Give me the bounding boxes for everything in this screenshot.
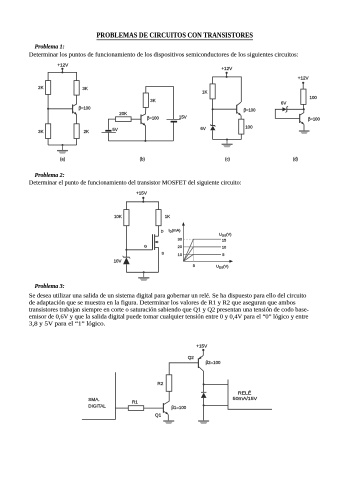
relay coil outline (problema 3) xyxy=(228,380,272,410)
wire bottom rail (problema 2) xyxy=(126,271,158,273)
transistor Q npn (circuit d) xyxy=(300,114,304,125)
wire zener anode (circuit c) xyxy=(212,130,214,139)
wire digital output to R1 (problema 3) xyxy=(115,407,128,409)
transistor Q npn (circuit c) xyxy=(237,102,241,115)
svg-text:SMA.: SMA. xyxy=(88,397,99,402)
ground (circuit a) xyxy=(57,145,68,154)
resistor 2K lower right (circuit a) xyxy=(74,124,79,139)
ground (circuit c) xyxy=(222,140,233,148)
junction emitter bottom (circuit b) xyxy=(144,140,146,142)
svg-text:10V: 10V xyxy=(114,258,122,263)
resistor 1K (circuit c) xyxy=(210,84,215,99)
wire supply stub (circuit d) xyxy=(302,83,304,89)
svg-text:β=100: β=100 xyxy=(147,116,160,121)
title: PROBLEMAS DE CIRCUITOS CON TRANSISTORES xyxy=(97,31,254,40)
wire collector (circuit d) xyxy=(300,109,304,115)
wire emitter Q1 to ground (problema 3) xyxy=(167,414,169,420)
junction bottom rail (problema 2) xyxy=(143,271,145,273)
transistor Q2 pnp (problema 3) xyxy=(198,355,203,371)
svg-text:DIGITAL: DIGITAL xyxy=(88,403,106,408)
svg-text:10K: 10K xyxy=(114,214,122,219)
resistor 20K base (circuit b) xyxy=(116,117,132,122)
graph dashed level 30 xyxy=(183,238,193,240)
wire collector (circuit a) xyxy=(73,95,77,106)
graph curve UGS=15 xyxy=(183,239,221,261)
svg-text:D: D xyxy=(161,230,164,234)
wire base (circuit a) xyxy=(48,108,73,110)
svg-text:100: 100 xyxy=(245,125,253,130)
wire bottom rail (circuit b) xyxy=(108,140,173,142)
svg-text:15: 15 xyxy=(222,237,226,242)
svg-text:RELÉ: RELÉ xyxy=(238,389,251,395)
svg-text:3,8 y 5V para el “1” lógico.: 3,8 y 5V para el “1” lógico. xyxy=(29,321,106,328)
supply terminal dot (circuit d) xyxy=(302,82,304,84)
svg-text:β=100: β=100 xyxy=(79,106,92,111)
svg-text:Q1: Q1 xyxy=(155,412,162,417)
svg-text:6V: 6V xyxy=(200,126,205,131)
svg-text:Q2: Q2 xyxy=(188,355,195,360)
junction node A (problema 3) xyxy=(203,383,205,385)
wire collector node to zener cathode (circuit d) xyxy=(287,108,304,110)
wire top rail (problema 2) xyxy=(126,202,158,210)
wire source (problema 2) xyxy=(158,247,160,272)
svg-text:(a): (a) xyxy=(60,156,66,161)
junction top rail (problema 2) xyxy=(142,201,144,203)
svg-text:R1: R1 xyxy=(132,400,138,405)
wire lower left (circuit a) xyxy=(47,139,49,146)
wire emitter (circuit a) xyxy=(76,114,78,123)
svg-text:20K: 20K xyxy=(119,111,127,116)
wire emitter resistor to rail (circuit c) xyxy=(240,134,242,139)
wire base (circuit b) xyxy=(131,118,141,120)
wire supply stub (circuit c) xyxy=(226,73,228,77)
supply terminal dot (circuit a) xyxy=(61,68,63,70)
svg-text:β=100: β=100 xyxy=(244,107,257,112)
wire collector (circuit b) xyxy=(141,107,146,116)
svg-text:Problema 3:: Problema 3: xyxy=(35,284,65,290)
svg-text:+12V: +12V xyxy=(221,66,233,71)
junction base node (circuit c) xyxy=(212,108,214,110)
wire left mid (circuit a) xyxy=(47,94,49,123)
wire drain (problema 2) xyxy=(158,226,160,237)
zener diode 10V (problema 2) xyxy=(123,256,131,264)
wire node B to ground (problema 3) xyxy=(203,405,205,420)
supply terminal dot (problema 3) xyxy=(202,349,204,351)
wire battery minus to rail (circuit b) xyxy=(107,133,109,141)
junction collector node (circuit d) xyxy=(303,108,305,110)
junction node B (problema 3) xyxy=(203,404,205,406)
svg-text:+15V: +15V xyxy=(136,191,148,196)
wire zener node (circuit c) xyxy=(212,99,214,126)
svg-text:2K: 2K xyxy=(38,85,43,90)
wire R1 to base Q1 (problema 3) xyxy=(144,407,164,409)
wire diode to node B (problema 3) xyxy=(203,398,205,406)
graph curve UGS=10 xyxy=(183,247,221,261)
wire base to battery (circuit b) xyxy=(108,119,115,130)
svg-text:3K: 3K xyxy=(82,86,87,91)
wire emitter (circuit b) xyxy=(144,125,146,140)
svg-text:5V: 5V xyxy=(112,127,117,132)
zener diode 6V feedback (circuit d) xyxy=(282,106,288,112)
supply terminal dot (circuit c) xyxy=(226,72,228,74)
resistor R2 (problema 3) xyxy=(166,375,172,392)
wire lower right (circuit a) xyxy=(76,139,78,146)
svg-text:(d): (d) xyxy=(293,157,299,162)
svg-text:+15V: +15V xyxy=(196,343,208,348)
wire top rail (circuit c) xyxy=(213,77,242,102)
svg-text:(b): (b) xyxy=(140,156,146,161)
wire emitter Q2 supply (problema 3) xyxy=(202,350,204,355)
svg-text:Problema 2:: Problema 2: xyxy=(35,173,65,179)
wire gate (problema 2) xyxy=(126,249,152,251)
resistor 3K collector (circuit b) xyxy=(143,93,148,107)
junction bottom rail (circuit a) xyxy=(62,144,64,146)
wire supply stub (circuit a) xyxy=(61,69,63,73)
wire zener anode to base (circuit d) xyxy=(275,109,299,118)
wire emitter (circuit c) xyxy=(240,115,242,119)
svg-text:5: 5 xyxy=(222,252,224,257)
svg-text:50mA/15V: 50mA/15V xyxy=(233,396,258,401)
node base divider junction (circuit a) xyxy=(47,108,49,110)
svg-text:100: 100 xyxy=(310,95,318,100)
ground Q2 relay (problema 3) xyxy=(198,421,209,424)
wire node B to relay (problema 3) xyxy=(204,404,228,406)
svg-text:de adaptación que se muestra e: de adaptación que se muestra en la figur… xyxy=(29,300,296,307)
svg-text:β=100: β=100 xyxy=(308,117,321,122)
transistor Q1 npn (problema 3) xyxy=(163,401,169,414)
svg-text:Problema 1:: Problema 1: xyxy=(35,45,65,51)
wire node A to relay (problema 3) xyxy=(204,383,228,385)
wire emitter (circuit d) xyxy=(303,124,305,130)
resistor 1K drain (problema 2) xyxy=(156,210,161,226)
graph x-axis UDS (problema 2) xyxy=(183,260,233,263)
resistor 2K upper left (circuit a) xyxy=(46,81,51,95)
mosfet M1 (problema 2) xyxy=(153,234,159,250)
wire R2 to base Q2 (problema 3) xyxy=(169,363,198,375)
wire base (circuit c) xyxy=(213,108,237,110)
wire collector Q2 to node A (problema 3) xyxy=(203,371,205,384)
resistor 3K upper right (circuit a) xyxy=(74,81,79,96)
resistor R1 (problema 3) xyxy=(128,406,143,411)
svg-text:6V: 6V xyxy=(281,101,286,106)
transistor Q npn (circuit b) xyxy=(141,115,145,126)
battery 5V (circuit b) xyxy=(102,130,116,133)
resistor 3K lower left (circuit a) xyxy=(46,124,51,139)
resistor 100 collector (circuit d) xyxy=(301,89,306,104)
wire bottom rail (circuit a) xyxy=(48,144,77,146)
svg-text:15V: 15V xyxy=(179,115,187,120)
resistor 100 emitter (circuit c) xyxy=(239,119,244,134)
svg-text:3K: 3K xyxy=(150,98,155,103)
wire resistor to collector node (circuit d) xyxy=(302,104,304,109)
resistor 10K (problema 2) xyxy=(124,210,129,226)
wire collector Q1 to R2 (problema 3) xyxy=(168,391,170,401)
junction top rail (circuit c) xyxy=(226,76,228,78)
svg-text:R2: R2 xyxy=(157,381,163,386)
svg-text:5: 5 xyxy=(193,263,195,268)
svg-text:G: G xyxy=(144,245,147,249)
wire top rail (circuit a) xyxy=(48,72,77,80)
wire supply stub (problema 2) xyxy=(142,198,144,202)
svg-text:Determinar el punto de funcion: Determinar el punto de funcionamiento de… xyxy=(29,180,242,187)
ground Q1 (problema 3) xyxy=(163,421,174,424)
wire gate node (problema 2) xyxy=(125,226,127,258)
svg-text:β1=100: β1=100 xyxy=(171,405,186,410)
ground (circuit d) xyxy=(299,131,310,134)
junction bottom rail (circuit c) xyxy=(226,139,228,141)
supply terminal dot (problema 2) xyxy=(142,197,144,199)
svg-text:(c): (c) xyxy=(225,156,230,161)
svg-text:β2=100: β2=100 xyxy=(206,360,221,365)
svg-text:Se desea utilizar una salida d: Se desea utilizar una salida de un siste… xyxy=(29,293,307,299)
diode flyback (problema 3) xyxy=(201,392,207,398)
svg-text:Determinar los puntos de funci: Determinar los puntos de funcionamiento … xyxy=(29,51,299,58)
svg-text:transistores trabajan siempre: transistores trabajan siempre en corte o… xyxy=(29,308,309,314)
wire node A to diode (problema 3) xyxy=(203,384,205,392)
graph y-axis ID (problema 2) xyxy=(182,222,185,261)
wire zener anode (problema 2) xyxy=(125,264,127,272)
wire bottom rail (circuit c) xyxy=(213,139,242,141)
svg-text:1K: 1K xyxy=(202,90,207,95)
battery 15V (circuit b) xyxy=(167,120,181,123)
graph gridline x=5 xyxy=(192,239,194,261)
svg-text:+12V: +12V xyxy=(57,62,69,67)
svg-text:emisor de 0,6V y que la salida: emisor de 0,6V y que la salida digital p… xyxy=(29,314,309,321)
wire battery 15V to rail (circuit b) xyxy=(172,123,174,141)
junction top rail (circuit a) xyxy=(61,71,63,73)
svg-text:2K: 2K xyxy=(84,129,89,134)
svg-text:1K: 1K xyxy=(165,214,170,219)
zener diode 6V (circuit c) xyxy=(210,124,215,130)
junction gate node (problema 2) xyxy=(125,249,127,251)
transistor Q npn (circuit a) xyxy=(73,104,77,114)
svg-text:3K: 3K xyxy=(38,129,43,134)
wire top rail (circuit b) xyxy=(146,87,174,120)
svg-text:PROBLEMAS DE CIRCUITOS CON TRA: PROBLEMAS DE CIRCUITOS CON TRANSISTORES xyxy=(97,31,254,40)
graph curve UGS=5 xyxy=(183,254,221,261)
ground (problema 2) xyxy=(138,272,149,281)
svg-text:+12V: +12V xyxy=(298,75,310,80)
digital system block SMA. DIGITAL (problema 3) xyxy=(82,372,116,419)
